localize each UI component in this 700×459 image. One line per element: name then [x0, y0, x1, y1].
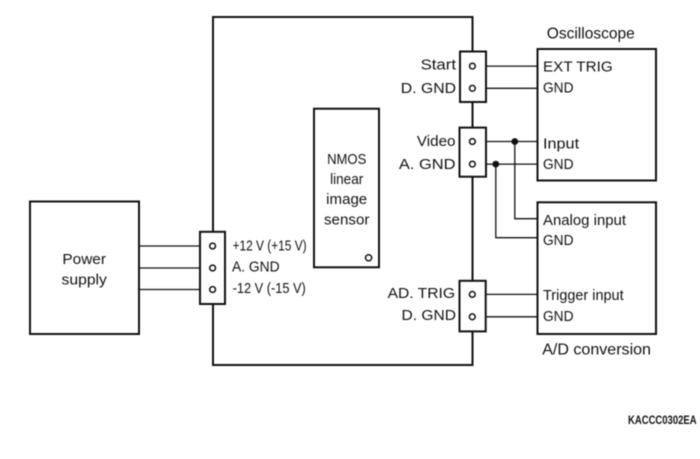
NMOS sensor label [324, 151, 369, 229]
wire junction agnd down to adc gnd [496, 164, 538, 238]
svg-text:A/D conversion: A/D conversion [542, 342, 651, 359]
wire A.GND supply to connector [139, 267, 213, 269]
svg-text:NMOS: NMOS [327, 151, 366, 168]
power supply label [62, 251, 108, 289]
svg-text:GND: GND [543, 308, 574, 325]
junction dot agnd [492, 161, 499, 168]
pin A.GND [210, 265, 216, 271]
svg-text:D. GND: D. GND [401, 80, 456, 97]
junction dot video [511, 138, 518, 145]
pin Video [470, 139, 476, 145]
svg-text:Video: Video [417, 133, 456, 150]
power supply box [30, 202, 139, 335]
svg-text:Start: Start [421, 57, 457, 74]
wire Video to Input [472, 141, 537, 143]
svg-text:sensor: sensor [324, 211, 369, 228]
svg-text:D. GND: D. GND [402, 307, 457, 324]
wire -12V supply to connector [139, 289, 213, 291]
wire +12V supply to connector [139, 245, 213, 247]
connector Start/D.GND [460, 52, 486, 103]
svg-text:supply: supply [62, 272, 108, 289]
driver circuit outer box [213, 17, 473, 365]
pin AD.TRIG [469, 292, 475, 298]
pin D.GND [470, 85, 476, 91]
NMOS linear image sensor box [314, 109, 379, 268]
svg-text:image: image [326, 191, 367, 208]
svg-text:GND: GND [543, 80, 574, 97]
wire AD.TRIG to Trigger input [472, 293, 537, 295]
sensor pin circle [366, 255, 372, 261]
pin -12V [210, 287, 216, 293]
svg-text:Input: Input [543, 135, 580, 152]
wire Start to EXT TRIG [472, 65, 537, 67]
svg-text:Analog input: Analog input [543, 212, 627, 229]
wire junction video down to analog input [515, 142, 538, 219]
wire D.GND to GND (osc) [472, 87, 537, 89]
svg-text:Oscilloscope: Oscilloscope [547, 25, 635, 42]
pin +12V [210, 243, 216, 249]
svg-text:+12 V (+15 V): +12 V (+15 V) [233, 238, 307, 255]
A/D conversion box [538, 202, 657, 334]
pin A.GND [470, 161, 476, 167]
svg-text:Power: Power [62, 251, 106, 268]
svg-text:GND: GND [543, 156, 574, 173]
svg-text:Trigger input: Trigger input [543, 287, 624, 304]
connector Video/A.GND [460, 128, 487, 177]
svg-text:linear: linear [330, 171, 363, 188]
svg-text:-12 V (-15 V): -12 V (-15 V) [233, 280, 306, 297]
svg-text:GND: GND [543, 232, 574, 249]
svg-text:A. GND: A. GND [232, 258, 280, 275]
pin D.GND [469, 314, 475, 320]
power connector [200, 232, 225, 304]
wire A.GND to GND (osc) [472, 163, 537, 165]
svg-text:AD. TRIG: AD. TRIG [388, 285, 455, 302]
svg-text:A. GND: A. GND [399, 156, 456, 173]
svg-text:KACCC0302EA: KACCC0302EA [628, 415, 697, 427]
pin Start [470, 63, 476, 69]
oscilloscope box [538, 49, 657, 181]
wire D.GND to GND (adc) [472, 316, 537, 318]
connector AD.TRIG/D.GND [460, 281, 486, 332]
svg-text:EXT TRIG: EXT TRIG [543, 59, 613, 76]
